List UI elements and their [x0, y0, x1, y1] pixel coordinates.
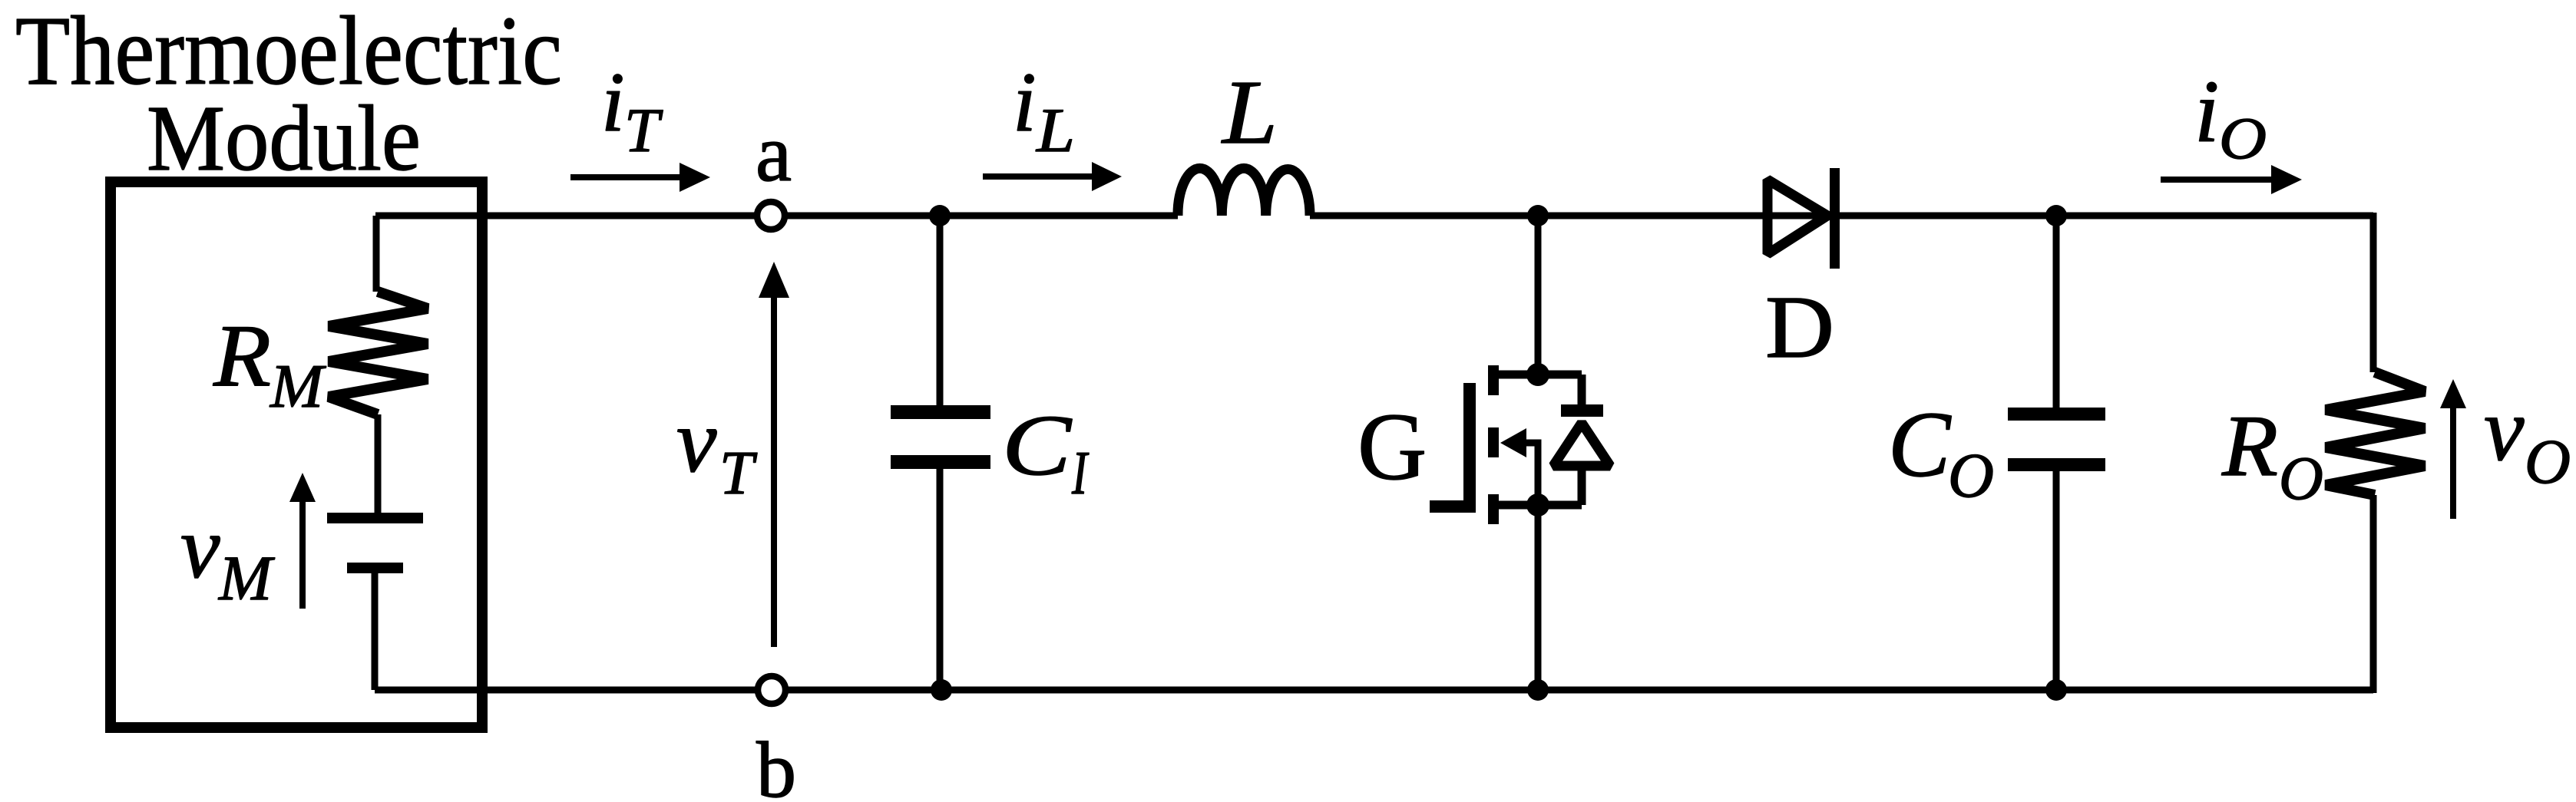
svg-text:v: v: [180, 499, 220, 597]
capacitor C_I top plate: [891, 405, 990, 419]
capacitor C_O bottom lead: [2053, 471, 2060, 690]
svg-text:i: i: [1013, 55, 1037, 149]
thermoelectric module box: [111, 182, 482, 728]
node b: [758, 676, 785, 704]
resistor R_M top lead: [373, 216, 380, 292]
MOSFET gate bar: [1463, 383, 1476, 512]
wire MOSFET source to rail: [1535, 505, 1542, 690]
svg-text:T: T: [719, 440, 758, 507]
svg-text:b: b: [756, 726, 796, 802]
svg-text:L: L: [1221, 61, 1278, 163]
MOSFET channel stub body: [1488, 427, 1499, 457]
arrow v_M: [299, 499, 306, 609]
resistor R_M: [329, 292, 428, 414]
MOSFET source junction dot: [1526, 493, 1549, 517]
svg-text:D: D: [1765, 279, 1834, 376]
node a: [757, 202, 785, 229]
svg-text:i: i: [2194, 63, 2219, 161]
arrow i_L: [983, 173, 1100, 180]
svg-text:M: M: [270, 353, 327, 421]
wire MOSFET drain vertical: [1535, 216, 1542, 375]
MOSFET body arrow: [1500, 428, 1526, 457]
wire top rail from R_M top to top-right corner: [375, 213, 2373, 219]
junction node top C_I: [929, 205, 951, 226]
svg-text:T: T: [624, 95, 663, 165]
capacitor C_I bottom lead: [937, 469, 944, 690]
svg-text:M: M: [218, 543, 275, 613]
wire MOSFET drain horizontal: [1493, 371, 1582, 379]
capacitor C_I top lead: [937, 216, 944, 405]
junction node bottom MOSFET: [1527, 679, 1549, 701]
wire MOSFET source horizontal: [1493, 501, 1582, 510]
svg-text:O: O: [1948, 440, 1994, 510]
svg-text:R: R: [213, 307, 271, 405]
svg-text:C: C: [1888, 393, 1952, 497]
MOSFET channel stub source: [1488, 494, 1499, 524]
junction node bottom C_O: [2045, 679, 2067, 701]
capacitor C_I bottom plate: [891, 455, 990, 469]
junction node bottom C_I: [931, 679, 952, 701]
svg-text:L: L: [1036, 95, 1075, 165]
wire right branch verticals: [2370, 213, 2377, 693]
diode D cathode bar: [1830, 168, 1840, 269]
arrow i_T: [570, 174, 687, 180]
wire bottom rail from battery to bottom-right corner: [375, 687, 2373, 694]
svg-text:R: R: [2221, 398, 2278, 494]
arrow v_O: [2450, 405, 2456, 519]
svg-text:O: O: [2525, 426, 2571, 497]
svg-text:O: O: [2279, 445, 2323, 513]
MOSFET body diode branch: [1578, 375, 1586, 505]
resistor R_O: [2326, 372, 2425, 495]
resistor R_M bottom lead: [375, 414, 382, 513]
svg-text:I: I: [1071, 440, 1089, 507]
junction node top C_O: [2045, 205, 2067, 226]
svg-text:v: v: [676, 391, 717, 491]
MOSFET drain junction dot: [1526, 363, 1549, 386]
capacitor C_O top plate: [2008, 408, 2105, 421]
svg-text:O: O: [2219, 105, 2267, 171]
arrow i_O: [2161, 177, 2279, 183]
battery bottom lead: [372, 573, 379, 690]
svg-text:G: G: [1357, 394, 1427, 500]
battery V_M plate short: [347, 563, 403, 573]
junction node top MOSFET drain: [1527, 205, 1549, 226]
inductor L: [1178, 168, 1310, 216]
MOSFET body diode triangle: [1553, 423, 1610, 466]
arrow v_T: [771, 296, 777, 647]
svg-text:v: v: [2484, 379, 2525, 480]
MOSFET gate lead: [1430, 500, 1476, 513]
battery V_M plate long: [327, 513, 423, 523]
MOSFET channel stub drain: [1488, 365, 1499, 395]
MOSFET body diode cathode bar: [1561, 404, 1603, 417]
svg-text:Module: Module: [147, 87, 421, 190]
svg-text:i: i: [601, 55, 625, 149]
svg-text:C: C: [1002, 398, 1073, 493]
diode D triangle: [1767, 180, 1827, 254]
svg-text:a: a: [756, 108, 792, 198]
capacitor C_O bottom plate: [2008, 458, 2105, 471]
capacitor C_O top lead: [2053, 216, 2060, 408]
